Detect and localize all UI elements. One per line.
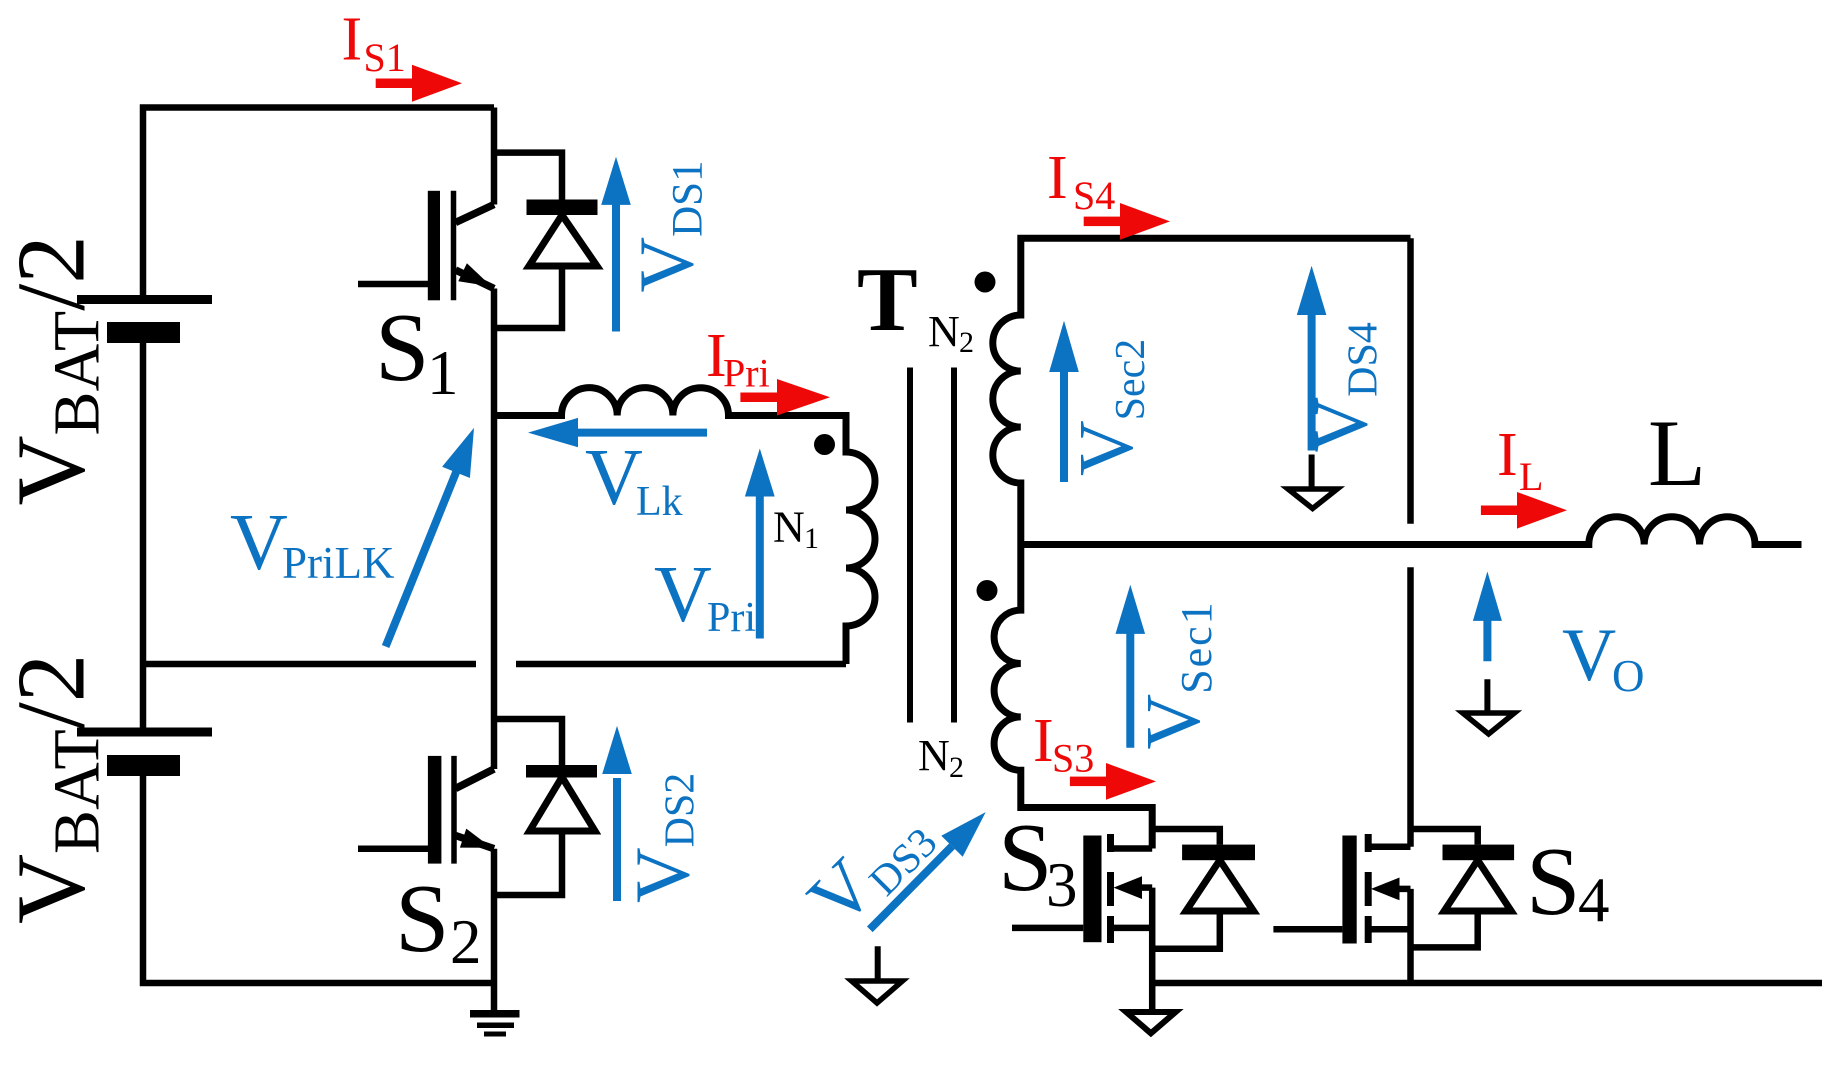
svg-text:T: T [857, 249, 918, 350]
svg-text:I: I [1497, 421, 1518, 489]
svg-text:1: 1 [804, 522, 819, 555]
svg-text:V: V [1562, 614, 1616, 697]
svg-text:S: S [998, 804, 1053, 912]
svg-text:N: N [918, 731, 950, 780]
svg-text:2: 2 [450, 907, 482, 977]
svg-text:2: 2 [959, 326, 974, 359]
svg-text:V: V [230, 499, 288, 587]
svg-text:N: N [773, 503, 805, 552]
svg-text:I: I [342, 6, 363, 74]
svg-text:I: I [1033, 707, 1054, 775]
svg-text:1: 1 [427, 338, 459, 408]
svg-text:L: L [1519, 454, 1543, 499]
svg-text:3: 3 [1046, 850, 1078, 920]
svg-text:Pri: Pri [723, 351, 770, 396]
svg-text:4: 4 [1578, 865, 1610, 935]
svg-text:Lk: Lk [636, 479, 683, 525]
svg-text:S: S [1526, 828, 1581, 936]
svg-text:2: 2 [949, 751, 964, 784]
svg-text:S: S [395, 865, 450, 973]
svg-text:L: L [1648, 400, 1706, 506]
svg-text:PriLK: PriLK [282, 538, 395, 588]
svg-text:I: I [1047, 144, 1068, 212]
svg-text:S1: S1 [364, 35, 406, 80]
svg-text:S3: S3 [1052, 736, 1094, 781]
svg-text:V: V [585, 434, 643, 522]
svg-text:V: V [654, 551, 712, 639]
svg-text:N: N [928, 307, 960, 356]
svg-text:O: O [1612, 651, 1645, 701]
svg-text:S4: S4 [1073, 173, 1115, 218]
svg-text:S: S [375, 294, 430, 402]
svg-text:Pri: Pri [707, 595, 756, 641]
